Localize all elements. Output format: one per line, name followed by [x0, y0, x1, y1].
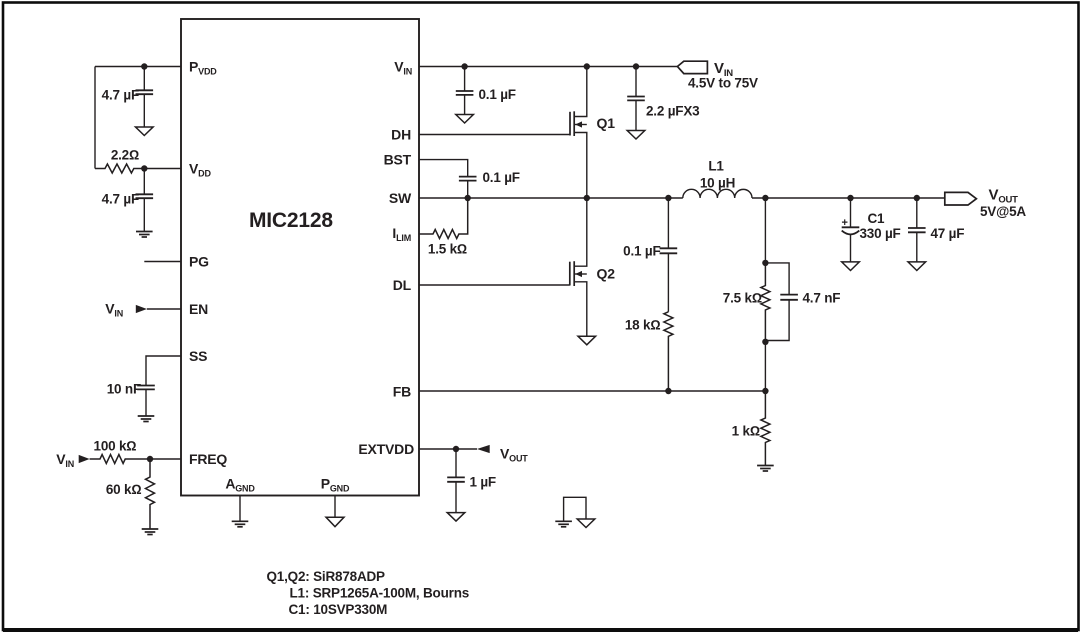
transistor Q1 SiR878ADP: [570, 67, 615, 199]
svg-text:1 kΩ: 1 kΩ: [732, 424, 760, 439]
wire Q2 drain/SW down branch none; FB rail: [419, 390, 765, 392]
capacitor 0.1uF (VIN): [456, 67, 516, 115]
pin VDD label: [189, 161, 211, 179]
signal ground (60k): [142, 529, 159, 535]
svg-text:Q1: Q1: [597, 115, 616, 131]
svg-text:Q1,Q2: SiR878ADP: Q1,Q2: SiR878ADP: [267, 569, 386, 584]
wire L1out to compensation: [764, 198, 766, 263]
pin PGND label: [321, 476, 350, 494]
node comp top junction: [762, 260, 768, 266]
svg-text:0.1 µF: 0.1 µF: [479, 87, 516, 102]
power ground (1uF): [447, 513, 465, 522]
pin FREQ label: [189, 451, 227, 467]
power ground (PGND): [326, 517, 344, 527]
pin ILIM label: [392, 225, 411, 243]
svg-text:FREQ: FREQ: [189, 451, 227, 467]
node C1 junction: [847, 195, 853, 201]
power ground (C1): [842, 262, 860, 271]
node SW-Q junction: [584, 195, 590, 201]
node VIN label (EN): [105, 301, 123, 319]
svg-text:7.5 kΩ: 7.5 kΩ: [723, 290, 762, 305]
svg-text:Q2: Q2: [597, 266, 616, 282]
node VIN label (FREQ): [56, 451, 74, 469]
node VOUT label (EXTVDD): [500, 446, 528, 464]
svg-text:SW: SW: [389, 190, 412, 206]
node FB divider junction: [762, 388, 768, 394]
wire ground tie bracket: [564, 497, 586, 521]
signal ground (VDD cap): [136, 232, 153, 238]
transistor Q2 SiR878ADP: [570, 198, 615, 336]
pin PVDD label: [189, 59, 217, 77]
wire VIN rail: [419, 66, 677, 68]
arrow VOUT into EXTVDD: [477, 445, 490, 453]
svg-text:4.7 µF: 4.7 µF: [102, 88, 139, 103]
node FREQ junction: [147, 456, 153, 462]
node L1 out junction: [762, 195, 768, 201]
capacitor 2.2uFX3: [627, 67, 700, 131]
signal ground (tie): [555, 521, 572, 527]
svg-text:5V@5A: 5V@5A: [980, 204, 1026, 219]
arrow VIN into FREQ: [79, 455, 90, 463]
capacitor 0.1uF (BST): [459, 170, 520, 198]
signal ground (1k): [757, 466, 774, 472]
pin FB label: [393, 384, 411, 400]
resistor 7.5k: [723, 263, 770, 342]
node FB-18k junction: [665, 388, 671, 394]
wire VOUT rail: [752, 197, 945, 199]
pin AGND label: [225, 476, 255, 494]
resistor 1.5k (ILIM): [419, 198, 468, 257]
svg-text:2.2Ω: 2.2Ω: [111, 148, 139, 163]
resistor 100k: [90, 439, 181, 464]
signal ground (AGND): [232, 521, 249, 527]
capacitor 1uF (EXTVDD): [447, 449, 496, 513]
capacitor 0.1uF feedforward: [623, 198, 677, 312]
pin VIN label: [394, 59, 412, 77]
wire PVDD rail: [95, 66, 181, 68]
node 47uF junction: [914, 195, 920, 201]
node EXTVDD junction: [453, 446, 459, 452]
resistor 18k: [625, 312, 673, 391]
svg-text:EN: EN: [189, 301, 208, 317]
note BOM line 2: [290, 586, 470, 601]
svg-text:C1: 10SVP330M: C1: 10SVP330M: [289, 602, 388, 617]
resistor 1k: [732, 391, 770, 466]
svg-text:2.2 µFX3: 2.2 µFX3: [646, 104, 700, 119]
wire DL to Q2 gate: [419, 284, 570, 286]
node comp bottom junction: [762, 339, 768, 345]
svg-text:10 nF: 10 nF: [107, 382, 141, 397]
wire SW rail: [419, 197, 683, 199]
node VDD junction: [141, 165, 147, 171]
svg-text:4.7 nF: 4.7 nF: [803, 290, 841, 305]
svg-text:10 µH: 10 µH: [700, 176, 735, 191]
arrow VIN into EN: [136, 305, 147, 313]
resistor 2.2ohm: [95, 148, 144, 174]
svg-text:SS: SS: [189, 348, 207, 364]
capacitor 10nF (SS): [107, 382, 155, 417]
pin SS label: [189, 348, 207, 364]
svg-text:FB: FB: [393, 384, 411, 400]
wire SS: [146, 356, 181, 386]
wire EN: [147, 308, 181, 310]
signal ground (SS cap): [138, 416, 155, 422]
capacitor C1 330uF: [842, 198, 901, 262]
flag VIN: [677, 60, 758, 91]
svg-text:0.1 µF: 0.1 µF: [623, 243, 660, 258]
wire BST: [419, 160, 468, 177]
svg-text:4.7 µF: 4.7 µF: [102, 192, 139, 207]
wire PGND pin: [334, 496, 336, 518]
pin EXTVDD label: [358, 441, 414, 457]
wire AGND pin: [239, 496, 241, 522]
svg-text:+: +: [842, 217, 848, 229]
flag VOUT: [945, 187, 1027, 220]
node PVDD junction: [141, 63, 147, 69]
node SW-BST junction: [465, 195, 471, 201]
wire VDD rail: [144, 168, 181, 170]
node 2.2uF junction: [633, 63, 639, 69]
power ground (47uF): [908, 262, 926, 271]
svg-text:18 kΩ: 18 kΩ: [625, 318, 661, 333]
svg-text:1 µF: 1 µF: [470, 475, 496, 490]
IC U1 MIC2128 body: [181, 19, 419, 496]
svg-text:0.1 µF: 0.1 µF: [483, 170, 520, 185]
capacitor 4.7nF: [765, 263, 840, 341]
power ground (2.2uF cap): [627, 131, 645, 140]
capacitor 4.7uF (PVDD): [102, 67, 153, 128]
node Q1 drain junction: [584, 63, 590, 69]
svg-text:EXTVDD: EXTVDD: [358, 441, 414, 457]
wire EXTVDD: [419, 448, 477, 450]
svg-text:L1: SRP1265A-100M, Bourns: L1: SRP1265A-100M, Bourns: [290, 586, 470, 601]
svg-text:330 µF: 330 µF: [860, 226, 901, 241]
wire comp to FB: [764, 342, 766, 391]
node SW-0.1uF junction: [665, 195, 671, 201]
node VIN cap junction: [461, 63, 467, 69]
pin BST label: [384, 152, 412, 168]
power ground (tie): [577, 519, 595, 528]
svg-text:C1: C1: [868, 211, 886, 226]
power ground (PVDD cap): [136, 127, 154, 136]
pin SW label: [389, 190, 412, 206]
wire PVDD to 2.2ohm left leg: [94, 67, 96, 169]
inductor L1 10uH: [683, 159, 752, 199]
pin DH label: [391, 127, 411, 143]
svg-text:4.5V to 75V: 4.5V to 75V: [688, 76, 758, 91]
wire PG stub: [144, 261, 181, 263]
pin EN label: [189, 301, 208, 317]
power ground (VIN cap): [456, 115, 474, 124]
svg-text:1.5 kΩ: 1.5 kΩ: [428, 242, 467, 257]
note BOM line 1: [267, 569, 386, 584]
svg-text:DH: DH: [391, 127, 411, 143]
resistor 60k: [106, 459, 155, 529]
svg-text:DL: DL: [393, 277, 412, 293]
pin PG label: [189, 254, 209, 270]
svg-text:PG: PG: [189, 254, 209, 270]
svg-text:MIC2128: MIC2128: [249, 209, 333, 232]
power ground (Q2 source): [578, 336, 596, 345]
svg-text:47 µF: 47 µF: [931, 226, 965, 241]
note BOM line 3: [289, 602, 388, 617]
svg-text:60 kΩ: 60 kΩ: [106, 482, 142, 497]
wire DH to Q1 gate: [419, 134, 570, 136]
capacitor 47uF: [908, 198, 964, 262]
pin DL label: [393, 277, 412, 293]
svg-text:BST: BST: [384, 152, 412, 168]
svg-text:L1: L1: [708, 159, 724, 174]
svg-text:100 kΩ: 100 kΩ: [94, 439, 137, 454]
capacitor 4.7uF (VDD): [102, 169, 153, 232]
